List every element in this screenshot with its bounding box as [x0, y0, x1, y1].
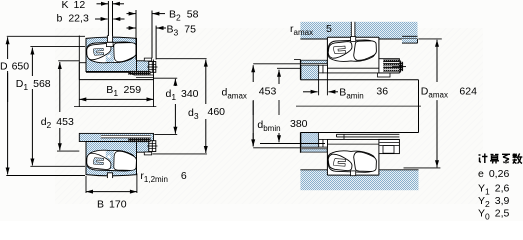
roller raceway window — [87, 150, 135, 171]
shaft spacer — [301, 65, 319, 80]
dimension B_amin 36 — [318, 80, 320, 96]
dimension b 22,3 — [101, 17, 108, 21]
inner ring (right view) — [327, 143, 379, 145]
table: calculation factors heading (CJK approximated) — [479, 154, 488, 164]
dimension B1 259 — [78, 36, 80, 107]
inner ring bottom face — [86, 71, 137, 73]
svg-text:6: 6 — [181, 170, 187, 182]
housing section (top, right view) — [300, 22, 417, 39]
lubrication notch (right view) — [351, 171, 356, 176]
right roller — [114, 151, 137, 170]
right roller — [114, 43, 137, 62]
housing section (bottom, right view) — [300, 170, 418, 190]
shaft — [300, 79, 418, 81]
left view: lower bearing half (mirrored) — [86, 138, 157, 179]
locking clip — [149, 62, 156, 73]
dimension K 12 — [107, 1, 109, 36]
dimension B3 75 — [155, 26, 157, 60]
sleeve bore line (right view) — [327, 138, 399, 140]
dimension B 170 — [85, 176, 87, 193]
locking clip tab — [144, 58, 151, 61]
abutment corner stub line — [294, 58, 300, 60]
adapter sleeve end (right view) — [319, 65, 323, 73]
svg-text:d2453: d2453 — [41, 116, 74, 130]
svg-text:b22,3: b22,3 — [57, 13, 89, 25]
lubrication notch (right view) — [351, 37, 356, 42]
lock nut (right view) — [379, 59, 400, 73]
locking clip — [149, 141, 156, 152]
adapter sleeve (lower, left view) — [79, 133, 153, 141]
sleeve thread contact — [128, 71, 150, 75]
lock nut — [137, 61, 149, 73]
housing shoulder — [402, 39, 418, 43]
shaft spacer — [301, 133, 319, 148]
outer ring section (right view) — [327, 37, 379, 59]
svg-text:D650: D650 — [0, 61, 29, 73]
inner ring (right view) — [327, 67, 379, 69]
adapter sleeve (upper, left view) — [79, 62, 86, 64]
right view: lower bearing half (mirrored) — [301, 133, 400, 176]
left roller — [87, 44, 111, 60]
svg-text:624: 624 — [459, 86, 477, 98]
svg-text:380: 380 — [290, 118, 308, 130]
left roller — [87, 153, 111, 169]
abutment ring — [301, 149, 327, 152]
W33 lubrication slot — [107, 173, 112, 178]
withdrawal sleeve detail (lower, right view) — [379, 142, 399, 144]
dimension r1,2min 6 — [136, 173, 138, 193]
svg-text:e0,26: e0,26 — [478, 168, 509, 180]
sleeve thread contact — [128, 138, 150, 142]
adapter sleeve thin section (lower, right view) — [337, 133, 400, 135]
centre axis line (right view) — [296, 105, 421, 107]
abutment ring — [301, 60, 327, 63]
svg-text:B1259: B1259 — [106, 84, 141, 98]
dimension D 650 — [7, 35, 85, 37]
dimension D1 568 — [30, 46, 85, 48]
left view: upper bearing half — [86, 35, 157, 75]
cage pocket mark — [93, 48, 103, 55]
svg-text:B170: B170 — [97, 199, 127, 211]
cage centre flange — [106, 151, 114, 169]
svg-text:340: 340 — [181, 88, 199, 100]
housing oil hole — [351, 22, 355, 39]
roller raceway window — [87, 42, 135, 63]
dimension d2 453 — [58, 60, 79, 62]
cage rivet — [108, 155, 111, 158]
svg-text:36: 36 — [376, 86, 388, 98]
svg-text:D1568: D1568 — [16, 78, 51, 92]
centre axis line (left view) — [74, 106, 156, 108]
inner ring bottom face — [86, 141, 137, 143]
lock nut (right view) — [379, 139, 400, 153]
svg-text:K12: K12 — [62, 0, 86, 11]
dimension d1 340 — [154, 77, 177, 79]
svg-text:460: 460 — [208, 106, 226, 118]
dimension d3 460 — [157, 58, 207, 60]
dimension d_amax 453 — [253, 63, 300, 65]
right view: upper bearing half — [301, 37, 406, 80]
cage centre flange — [106, 44, 114, 62]
raceway window (right view) — [328, 151, 376, 172]
dimension d_bmin 380 — [277, 67, 300, 69]
raceway window (right view) — [328, 40, 376, 61]
left roller (right view) — [328, 154, 352, 171]
withdrawal step under nut — [378, 73, 391, 77]
svg-text:5: 5 — [326, 23, 332, 35]
outer ring section (right view) — [327, 154, 379, 176]
dimension B2 58 — [135, 10, 137, 60]
locking clip tab — [144, 152, 151, 155]
svg-text:453: 453 — [259, 86, 277, 98]
outer ring and inner ring section (left view) — [86, 142, 137, 176]
sleeve bore line (right view) — [327, 72, 399, 74]
right roller (right view) — [354, 41, 377, 61]
cage rivet — [108, 55, 111, 58]
outer ring and inner ring section (left view) — [86, 37, 137, 71]
left roller (right view) — [328, 42, 352, 59]
W33 lubrication slot — [107, 36, 112, 42]
lock nut — [137, 140, 149, 152]
adapter sleeve end (right view) — [319, 139, 323, 147]
cage pocket mark — [93, 158, 103, 165]
dimension D_amax 624 — [418, 38, 441, 40]
right roller (right view) — [354, 152, 377, 172]
